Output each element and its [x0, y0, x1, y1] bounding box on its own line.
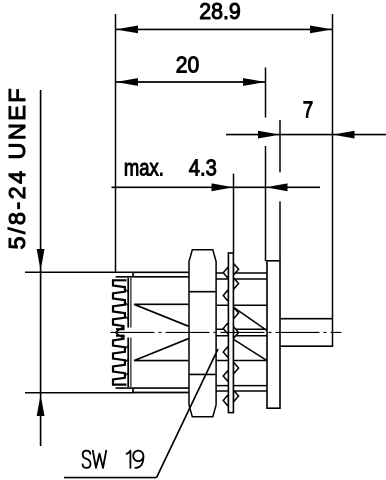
shoulder cylinder: [133, 272, 191, 392]
lock washer teeth left: [223, 267, 228, 407]
dimension 20: [116, 52, 266, 86]
SW 19 label with leader: [64, 349, 218, 478]
dimension 7: [226, 97, 386, 139]
thread serrated profile upper: [113, 280, 127, 329]
thread center chevron: [115, 328, 122, 338]
hex nut SW19: [189, 250, 216, 417]
extension line at x=233.5 (max 4.3 left): [233, 174, 235, 253]
svg-text:20: 20: [176, 52, 200, 78]
hex nut face lines: [189, 291, 216, 293]
lock washer strip: [228, 253, 233, 413]
svg-text:5/8-24 UNEF: 5/8-24 UNEF: [4, 86, 30, 250]
extension line left of 28.9 and 20: [115, 14, 117, 273]
extension line right of 28.9 / 7, rear face edge: [332, 14, 334, 347]
dimension max. 4.3: [112, 155, 321, 192]
thread runout verticals: [128, 278, 131, 387]
thread serrated profile lower: [113, 336, 127, 385]
dimension 28.9: [116, 0, 333, 33]
washer diagonals: [234, 307, 267, 360]
extension line thread OD top: [25, 271, 133, 273]
lock washer teeth right: [233, 263, 238, 402]
svg-text:4.3: 4.3: [189, 155, 217, 181]
rear solder bushing: [280, 318, 333, 320]
extension line at x=265.5 (20 / max4.3): [265, 68, 267, 262]
svg-text:max.: max.: [124, 155, 164, 181]
svg-text:7: 7: [303, 97, 314, 123]
extension line at x=280 (7 dim): [279, 120, 281, 261]
centerline: [111, 331, 342, 333]
thread root helix diagonals: [126, 290, 129, 376]
thread OD lines: [116, 276, 191, 278]
extension line thread OD bottom: [25, 392, 133, 394]
svg-text:28.9: 28.9: [199, 0, 241, 24]
thread label 5/8-24 UNEF: [4, 86, 45, 446]
washer band lines (behind): [217, 273, 267, 391]
panel plate: [267, 261, 280, 408]
